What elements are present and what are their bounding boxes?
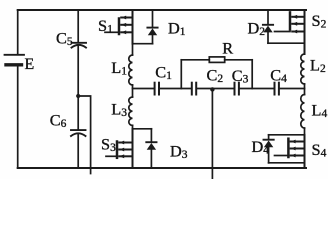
capacitor C5 [72,43,87,48]
svg-text:C6: C6 [50,111,67,131]
wire C2 to C3 [197,88,233,90]
wire D2/S2 bottom join [268,42,305,44]
wire D4/S4 bottom join [269,162,305,164]
top rail [18,9,306,11]
svg-text:L3: L3 [111,100,127,120]
wire left border below battery [17,67,19,169]
svg-text:R: R [222,39,233,58]
svg-text:S1: S1 [98,16,113,36]
wire R branch right stub [251,60,253,89]
diode D3 [146,129,156,168]
capacitor C6 [71,130,86,136]
wire C3 to C4 [240,88,274,90]
battery E [5,55,25,65]
diode D2 [263,10,273,43]
wire C4 to right column [280,88,305,90]
node center tap junction [210,87,214,91]
svg-text:D3: D3 [170,142,188,162]
wire L4 bottom to S4 top join [304,128,306,135]
svg-text:D2: D2 [248,19,266,39]
wire C6 column lower [77,134,79,169]
svg-text:L4: L4 [312,101,328,121]
wire mid capacitor line: L1 node to C1 [133,88,154,90]
wire S1 drain column [132,10,134,44]
wire L3 bottom to step [133,125,152,128]
wire R branch right segment [225,59,253,61]
wire C5-C6 column middle [77,45,79,130]
wire C5 column upper [77,10,79,43]
inductor L1 [129,55,133,85]
svg-text:C5: C5 [56,29,73,49]
svg-text:E: E [25,56,35,73]
svg-text:L1: L1 [111,58,127,78]
svg-text:C2: C2 [207,66,224,86]
svg-text:C1: C1 [155,63,172,83]
wire S1/D1 source join [133,43,153,45]
diode D1 [147,10,157,44]
wire left border above battery [17,10,19,54]
inductor L4 [301,95,305,129]
svg-text:S4: S4 [312,140,327,160]
wire node to L1 top [132,44,134,55]
capacitor C3 [235,83,239,95]
transistor S3 [106,141,133,159]
inductor L2 [301,54,305,84]
svg-text:L2: L2 [310,56,326,76]
wire S3 column [132,129,134,168]
capacitor C2 [192,83,196,95]
wire R branch left stub [180,60,182,89]
transistor S1 [105,16,133,35]
node midpoint junction on C5/C6 column [76,94,80,98]
transistor S2 [275,12,305,33]
wire C1 to C2 [160,88,191,90]
resistor R [209,57,224,63]
capacitor C1 [155,83,159,95]
diode D4 [264,135,274,163]
wire right column top [304,10,306,54]
svg-text:S2: S2 [312,11,327,31]
transistor S4 [275,139,305,158]
wire L2 bottom to mid node [304,84,306,95]
wire center tap down lead [211,90,213,180]
bottom rail [18,167,306,169]
svg-text:S3: S3 [101,135,116,155]
wire D4/S4 top join [269,134,305,136]
capacitor C4 [275,83,279,95]
wire L1 bottom to mid node [132,85,134,97]
svg-text:D1: D1 [168,19,186,39]
svg-text:C3: C3 [232,66,249,86]
inductor L3 [129,97,133,125]
wire right column S4 section [304,135,306,168]
wire midpoint to down-lead [78,96,90,174]
svg-text:C4: C4 [270,66,287,86]
wire R branch left segment [181,59,209,61]
